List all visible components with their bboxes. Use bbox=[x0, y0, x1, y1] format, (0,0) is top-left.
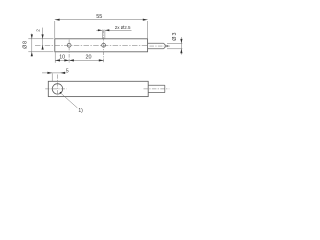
dimension 2x O2.5 (hole diameter) bbox=[96, 30, 131, 39]
mounting hole H1 bbox=[67, 40, 71, 63]
dimension 5 (edge to sensing face center) bbox=[42, 73, 66, 81]
centerline of body bbox=[35, 44, 147, 46]
svg-text:20: 20 bbox=[86, 54, 92, 60]
sensor body (side view) bbox=[55, 39, 148, 52]
dimension O3 (cable diameter, right) bbox=[167, 37, 182, 55]
cable centerline (top view) bbox=[144, 88, 170, 90]
dimension 2 (hole offset from top edge) bbox=[42, 28, 44, 49]
svg-text:2x Ø2.5: 2x Ø2.5 bbox=[115, 25, 131, 30]
dimension 20 (hole H1 to hole H2) bbox=[69, 59, 104, 61]
leader note 1) bbox=[60, 92, 83, 114]
svg-text:Ø3: Ø3 bbox=[172, 31, 178, 40]
svg-text:55: 55 bbox=[96, 14, 102, 20]
svg-text:1): 1) bbox=[78, 108, 83, 114]
svg-text:5: 5 bbox=[66, 69, 69, 75]
cable centerline bbox=[150, 45, 171, 47]
svg-text:2: 2 bbox=[36, 29, 42, 32]
cable (side view) bbox=[148, 43, 169, 49]
sensor body (top view) bbox=[48, 81, 148, 96]
cable (top view) bbox=[148, 85, 165, 92]
svg-text:10: 10 bbox=[59, 54, 65, 60]
circle crosshair centerlines bbox=[45, 75, 66, 96]
mounting hole H2 bbox=[102, 30, 106, 63]
dimension 55 (top) bbox=[55, 20, 148, 39]
sensing face circle bbox=[52, 84, 62, 94]
dimension O8 (body height, left outer) bbox=[28, 34, 53, 57]
svg-text:Ø8: Ø8 bbox=[23, 40, 29, 49]
dimension 10 (left edge to hole H1) bbox=[55, 52, 103, 63]
